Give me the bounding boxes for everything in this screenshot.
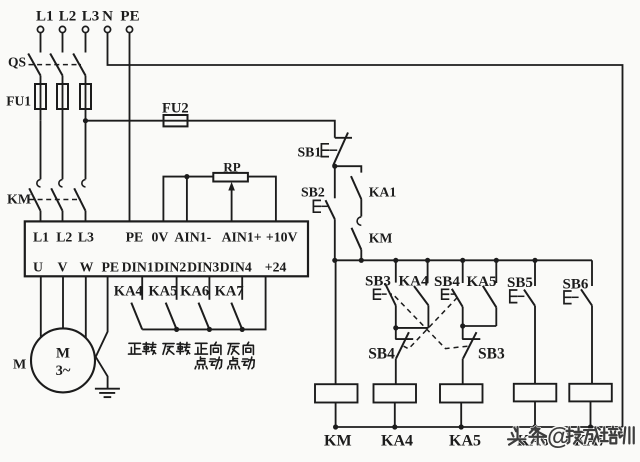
button SB6 (NO) bbox=[563, 260, 593, 305]
button SB2 (NO start) bbox=[301, 185, 335, 220]
wire KA6 coil to bottom rail bbox=[534, 401, 536, 427]
contact KA1 (NO) bbox=[351, 176, 396, 199]
VFD bottom terminal labels bbox=[33, 259, 287, 274]
wire 0V to RP bbox=[163, 177, 213, 222]
svg-text:KM: KM bbox=[369, 230, 393, 245]
coil KA7 bbox=[569, 384, 612, 402]
svg-text:KM: KM bbox=[7, 193, 31, 208]
svg-text:+10V: +10V bbox=[266, 230, 298, 245]
svg-text:SB6: SB6 bbox=[563, 277, 589, 293]
svg-text:L2: L2 bbox=[59, 9, 77, 25]
button SB3 (NO) bbox=[365, 260, 396, 305]
contact KM aux (NO) bbox=[352, 217, 393, 250]
contactor KM main contacts bbox=[7, 180, 86, 222]
svg-text:KA6: KA6 bbox=[180, 284, 209, 300]
wire to KA5 coil bbox=[462, 359, 464, 385]
wire RP to +10V bbox=[248, 177, 276, 222]
label KM coil bbox=[324, 433, 352, 450]
wire L3 QS to FU1 bbox=[85, 76, 87, 85]
wire common to +24 bbox=[142, 276, 265, 329]
VFD inverter box bbox=[25, 221, 308, 276]
wire KA4 coil to bottom rail bbox=[394, 403, 396, 428]
wire AIN1- up bbox=[186, 177, 188, 222]
wire SB2 to bus bbox=[334, 219, 336, 260]
svg-text:SB4: SB4 bbox=[434, 274, 460, 290]
wire L2 to QS bbox=[62, 33, 64, 53]
svg-text:L1: L1 bbox=[33, 230, 49, 245]
wire W to motor bbox=[85, 276, 87, 338]
wire SB6 to KA7 coil bbox=[591, 306, 593, 384]
potentiometer RP bbox=[213, 159, 248, 181]
wire N to right rail bbox=[108, 33, 623, 427]
coil KA6 bbox=[514, 384, 557, 402]
button SB3 interlock (NC) bbox=[462, 326, 505, 363]
wire KA5 to merge bbox=[495, 307, 497, 326]
coil KA5 bbox=[440, 384, 483, 402]
dashed link SB3 to NC-SB3 bbox=[382, 294, 468, 349]
wire SB5 to KA6 coil bbox=[534, 306, 536, 384]
wire L3 to FU2 bbox=[86, 120, 164, 122]
svg-text:PE: PE bbox=[126, 230, 144, 245]
junction dot SB1 bottom bbox=[332, 164, 337, 169]
svg-text:SB3: SB3 bbox=[478, 346, 505, 363]
wire to KA4 coil bbox=[395, 359, 397, 385]
coil KM bbox=[315, 384, 358, 402]
wire L1 QS to FU1 bbox=[40, 76, 42, 85]
svg-text:SB2: SB2 bbox=[301, 185, 325, 200]
wire L2 QS to FU1 bbox=[62, 76, 64, 85]
svg-text:SB4: SB4 bbox=[368, 346, 395, 363]
svg-text:0V: 0V bbox=[151, 230, 168, 245]
node L1 terminal bbox=[36, 9, 54, 33]
label fanzhuan (reverse) bbox=[163, 342, 190, 354]
label FU1 bbox=[6, 94, 31, 109]
node N terminal bbox=[102, 9, 113, 33]
svg-text:AIN1+: AIN1+ bbox=[222, 230, 262, 245]
fuse FU2 bbox=[162, 101, 189, 127]
wire control bus bbox=[335, 259, 592, 261]
svg-text:+24: +24 bbox=[265, 259, 287, 274]
svg-text:V: V bbox=[58, 259, 68, 274]
svg-text:DIN2: DIN2 bbox=[154, 259, 186, 274]
svg-text:SB5: SB5 bbox=[507, 275, 533, 291]
labels KA4 KA5 KA6 KA7 bbox=[114, 284, 244, 300]
svg-text:KA5: KA5 bbox=[449, 433, 481, 450]
fuse FU1 element 2 bbox=[57, 84, 68, 179]
wire L3 FU1 to KM bbox=[85, 121, 87, 180]
svg-text:PE: PE bbox=[120, 9, 139, 25]
svg-text:DIN4: DIN4 bbox=[220, 259, 252, 274]
svg-text:PE: PE bbox=[101, 259, 119, 274]
coil KA4 bbox=[374, 384, 417, 402]
contacts KA4-KA7 blades bbox=[131, 303, 242, 330]
dashed link SB4 to NC-SB4 bbox=[404, 294, 460, 349]
label KA4 coil bbox=[381, 433, 413, 450]
junction dots on +24 common bbox=[174, 327, 245, 332]
label fanxiang diandong (rev jog) bbox=[228, 342, 255, 369]
ground symbol bbox=[95, 389, 120, 397]
svg-text:QS: QS bbox=[8, 55, 26, 70]
motor M 3~ bbox=[13, 328, 95, 392]
button SB1 (NC stop) bbox=[298, 133, 353, 166]
wires DIN1-DIN4 stubs bbox=[142, 276, 242, 300]
svg-text:SB1: SB1 bbox=[298, 145, 322, 160]
label KA6 coil bbox=[517, 433, 549, 450]
wire merge line 1 bbox=[396, 327, 429, 329]
svg-text:L3: L3 bbox=[82, 9, 100, 25]
junction dot AIN1- bbox=[184, 174, 189, 179]
wire PE down to drive PE bbox=[129, 33, 131, 222]
svg-text:KA5: KA5 bbox=[148, 284, 177, 300]
button SB5 (NO) bbox=[507, 260, 535, 306]
wire KA4 to merge bbox=[427, 305, 429, 328]
junction dot merge 1 bbox=[393, 325, 398, 330]
svg-text:M: M bbox=[56, 346, 70, 362]
svg-text:L2: L2 bbox=[56, 230, 72, 245]
svg-text:FU2: FU2 bbox=[162, 101, 189, 117]
junction dots bottom rail bbox=[333, 424, 593, 429]
wire KA5 coil to bottom rail bbox=[460, 403, 462, 428]
contact KA5 (NO) bbox=[467, 260, 497, 307]
svg-text:U: U bbox=[33, 259, 43, 274]
label KA7 coil bbox=[574, 433, 606, 450]
KM interlock dashed link bbox=[29, 199, 81, 201]
QS interlock dashed link bbox=[29, 64, 82, 66]
svg-text:KA7: KA7 bbox=[215, 284, 244, 300]
wire FU2 to SB1 bbox=[188, 121, 335, 138]
node L2 terminal bbox=[59, 9, 77, 33]
junction dot merge 2 bbox=[460, 323, 465, 328]
fuse FU1 element 1 bbox=[35, 84, 46, 121]
RP wiper arrow to AIN1+ bbox=[228, 182, 235, 222]
junction dots on bus bbox=[332, 258, 537, 263]
svg-text:W: W bbox=[80, 259, 94, 274]
svg-text:AIN1-: AIN1- bbox=[174, 230, 211, 245]
svg-text:KA5: KA5 bbox=[467, 274, 497, 290]
svg-text:N: N bbox=[102, 9, 113, 25]
watermark toutiao jicheng peixun bbox=[508, 424, 634, 451]
node PE terminal bbox=[120, 9, 139, 33]
wire KM contact to bus bbox=[360, 250, 362, 261]
svg-text:3~: 3~ bbox=[56, 363, 71, 379]
fuse FU1 element 3 bbox=[80, 84, 91, 121]
svg-text:KA4: KA4 bbox=[381, 433, 413, 450]
wire L1 to QS bbox=[40, 33, 42, 53]
svg-text:L1: L1 bbox=[36, 9, 54, 25]
label zhengzhuan (forward) bbox=[128, 342, 155, 354]
wire U to motor bbox=[40, 276, 42, 337]
label KA5 coil bbox=[449, 433, 481, 450]
junction dot L3-FU2 bbox=[83, 118, 88, 123]
node L3 terminal bbox=[82, 9, 100, 33]
VFD top terminal labels bbox=[33, 230, 298, 245]
wire SB3 to merge bbox=[395, 306, 397, 328]
label zhengxiang diandong (fwd jog) bbox=[195, 342, 222, 369]
wire KA7 coil to bottom rail bbox=[590, 401, 592, 427]
contact KA4 (NO) bbox=[399, 260, 430, 305]
wire V to motor bbox=[62, 276, 64, 328]
svg-text:KM: KM bbox=[324, 433, 352, 450]
svg-text:DIN1: DIN1 bbox=[122, 259, 154, 274]
wire KM coil to bottom rail bbox=[335, 403, 337, 428]
wire bottom rail bbox=[336, 426, 623, 428]
wire SB1 to SB2 bbox=[334, 166, 336, 198]
svg-text:L3: L3 bbox=[78, 230, 94, 245]
svg-text:M: M bbox=[13, 358, 26, 373]
svg-text:DIN3: DIN3 bbox=[187, 259, 219, 274]
svg-text:KA1: KA1 bbox=[369, 184, 397, 199]
switch QS blades bbox=[8, 54, 86, 76]
svg-text:RP: RP bbox=[223, 159, 240, 174]
svg-text:KA4: KA4 bbox=[114, 284, 143, 300]
wire L1 FU1 to KM bbox=[40, 121, 42, 180]
wire bus to KM coil bbox=[335, 260, 337, 384]
wire to KA1 branch bbox=[335, 166, 362, 172]
svg-text:FU1: FU1 bbox=[6, 94, 31, 109]
button SB4 interlock (NC) bbox=[368, 328, 413, 363]
wire L3 to QS bbox=[85, 33, 87, 53]
wire KA1 to KM contact bbox=[360, 199, 362, 216]
wire merge line 2 bbox=[463, 325, 497, 327]
wire PE to motor frame and ground bbox=[96, 276, 108, 388]
wire SB4 to merge bbox=[462, 307, 464, 326]
button SB4 (NO) bbox=[434, 260, 463, 307]
